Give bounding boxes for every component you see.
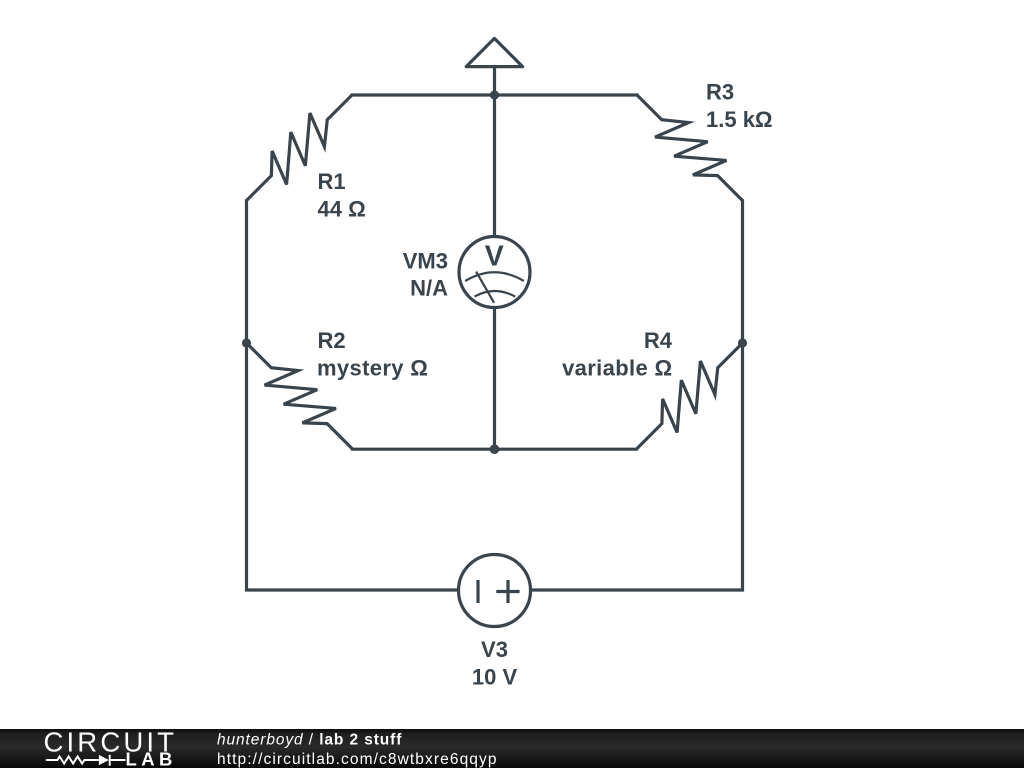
svg-text:VM3: VM3 [403,249,448,274]
resistor R2 [234,331,364,461]
svg-text:V3: V3 [481,637,508,662]
wire: voltmeter bottom lead [493,308,496,450]
voltmeter scale arc upper [465,272,524,281]
svg-text:http://circuitlab.com/c8wtbxre: http://circuitlab.com/c8wtbxre6qqyp [217,751,498,768]
wire: voltmeter top lead [493,95,496,237]
wire: left rail [247,201,459,590]
node: right (R3/R4/rail junction) [738,338,747,347]
resistor R3 [625,83,755,213]
logo diode symbol [99,755,109,765]
svg-text:R4: R4 [644,328,673,353]
logo resistor squiggle [46,757,99,764]
resistor R1 [234,83,364,213]
svg-text:1.5 kΩ: 1.5 kΩ [706,107,773,132]
wire: top-right horizontal [495,93,638,96]
resistor R4 [624,331,754,461]
svg-text:N/A: N/A [410,276,448,301]
wire: VCC stem [493,67,496,96]
svg-text:R2: R2 [318,328,346,353]
VCC power symbol (triangle) [466,38,522,66]
svg-text:V: V [485,241,504,273]
svg-text:R1: R1 [318,169,346,194]
svg-text:44 Ω: 44 Ω [318,197,366,222]
footer bar [0,729,1024,768]
svg-text:R3: R3 [706,80,734,105]
voltmeter needle [476,272,494,303]
voltage source V3 body [459,555,531,627]
node: top (VM3/R1/R3 junction) [490,90,499,99]
wire: bridge bottom horizontal [353,448,637,451]
svg-text:mystery Ω: mystery Ω [317,356,428,381]
wire: right rail [531,201,743,590]
logo diode cathode bar and lead [109,755,126,766]
svg-text:10 V: 10 V [472,665,518,690]
svg-text:variable Ω: variable Ω [562,356,672,381]
node: bottom (R2/R4/VM3 junction) [490,444,500,454]
V3 plus sign [496,580,519,603]
wire: top-left horizontal [352,93,495,96]
node: left (R1/R2/rail junction) [242,338,251,347]
voltmeter VM3 body [459,237,530,308]
svg-text:hunterboyd / lab 2 stuff: hunterboyd / lab 2 stuff [217,732,402,749]
svg-text:LAB: LAB [126,749,177,768]
V3 minus terminal bar [476,580,479,603]
voltmeter scale arc lower [475,291,516,297]
